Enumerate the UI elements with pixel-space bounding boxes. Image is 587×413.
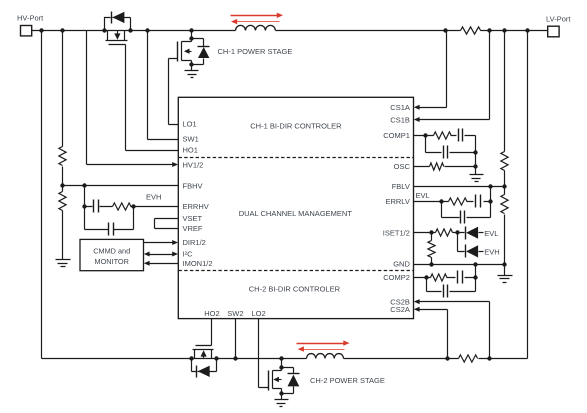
svg-text:IMON1/2: IMON1/2 — [183, 259, 213, 268]
svg-text:CH-1 POWER STAGE: CH-1 POWER STAGE — [218, 47, 293, 56]
resistor bottom-rail CS2 sense — [459, 355, 478, 362]
resistor top-rail LV side — [461, 27, 481, 34]
red arrow left (CH-2 current) — [298, 346, 345, 351]
RC network ERRLV compensation — [414, 187, 493, 224]
wire HO2 to Q3 gate — [211, 319, 213, 346]
svg-text:MONITOR: MONITOR — [95, 257, 129, 266]
svg-text:ERRHV: ERRHV — [183, 202, 209, 211]
pin labels bottom (HO2 SW2 LO2) — [204, 309, 266, 318]
red arrow right (CH-2 current) — [297, 340, 350, 345]
wire HV1/2 sense — [87, 31, 173, 165]
svg-text:EVL: EVL — [416, 191, 430, 200]
port LV-Port — [546, 15, 571, 37]
inductor L1 (CH-1) — [236, 25, 276, 30]
svg-text:FBHV: FBHV — [183, 181, 203, 190]
body diode D1 (Q1) — [105, 12, 131, 31]
junction dots top rail — [39, 28, 529, 32]
diode to EVL clamp — [466, 227, 499, 240]
svg-text:I²C: I²C — [183, 250, 194, 259]
wire FBLV — [414, 186, 505, 188]
red arrow right (CH-1 current) — [231, 13, 284, 18]
wire SW1 sense — [148, 31, 179, 140]
arrow DIR1/2 (CMMD to controller) — [144, 242, 173, 244]
svg-text:HV1/2: HV1/2 — [183, 160, 204, 169]
svg-text:LV-Port: LV-Port — [546, 15, 571, 24]
junction dots bottom rail — [189, 356, 491, 360]
svg-text:ERRLV: ERRLV — [385, 197, 409, 206]
diode to EVH clamp — [458, 233, 500, 258]
transistor Q3 high-side PMOS CH-2 — [193, 346, 214, 359]
wire LO1 to Q2 gate — [169, 59, 179, 125]
pin labels left (LO1..IMON1/2) — [183, 120, 213, 268]
ground (OSC/COMP1) — [475, 167, 477, 175]
svg-text:CS1B: CS1B — [390, 115, 410, 124]
wire FBHV — [63, 185, 179, 187]
svg-text:CH-1 BI-DIR CONTROLER: CH-1 BI-DIR CONTROLER — [250, 121, 342, 130]
svg-text:COMP2: COMP2 — [383, 273, 410, 282]
ground (GND pin) — [504, 265, 506, 276]
wire CS2B — [419, 302, 490, 359]
wire SW2 sense — [235, 319, 237, 359]
svg-text:SW2: SW2 — [227, 309, 243, 318]
ground (Q2 source) — [191, 65, 193, 71]
svg-text:COMP1: COMP1 — [383, 131, 410, 140]
RC network ERRHV compensation — [82, 186, 178, 236]
svg-text:HV-Port: HV-Port — [17, 14, 44, 23]
svg-text:OSC: OSC — [394, 162, 411, 171]
svg-text:CH-2 POWER STAGE: CH-2 POWER STAGE — [310, 376, 385, 385]
svg-text:GND: GND — [393, 260, 410, 269]
svg-text:CS1A: CS1A — [390, 103, 410, 112]
arrow IMON1/2 (controller to CMMD) — [149, 263, 179, 265]
wire CS1B — [419, 31, 490, 120]
resistor divider R4/R5 (FBLV) — [501, 31, 508, 265]
svg-text:VREF: VREF — [183, 224, 203, 233]
svg-text:DIR1/2: DIR1/2 — [183, 238, 206, 247]
RC network COMP1 compensation — [414, 129, 478, 169]
svg-text:LO2: LO2 — [252, 309, 266, 318]
transistor Q4 NMOS CH-2 power stage — [269, 359, 284, 396]
svg-text:DUAL CHANNEL MANAGEMENT: DUAL CHANNEL MANAGEMENT — [239, 209, 353, 218]
block CMMD and MONITOR — [80, 239, 144, 270]
block dual-channel controller U1 — [178, 97, 413, 318]
wire HV left rail to bottom — [41, 31, 43, 359]
resistor OSC — [414, 166, 476, 168]
port HV-Port — [17, 14, 44, 36]
red arrow left (CH-1 current) — [231, 19, 280, 24]
svg-text:EVH: EVH — [484, 248, 499, 257]
svg-text:SW1: SW1 — [183, 134, 199, 143]
wire LV bottom rail — [42, 31, 528, 359]
svg-text:EVH: EVH — [146, 193, 161, 202]
svg-text:FBLV: FBLV — [392, 182, 410, 191]
svg-text:HO1: HO1 — [183, 146, 198, 155]
wire HV/LV top rail — [32, 30, 548, 32]
svg-text:LO1: LO1 — [183, 120, 197, 129]
body diode D2 (Q2) — [192, 39, 210, 65]
svg-text:EVL: EVL — [484, 229, 498, 238]
arrow I2C bidirectional — [149, 254, 173, 256]
wire HO1 to Q1 gate — [126, 45, 179, 151]
ground (Q4 source) — [281, 394, 283, 400]
wire GND net — [414, 264, 505, 266]
dashed divider CH-1 / management — [179, 157, 414, 159]
wire VSET-VREF loop — [155, 219, 179, 229]
wire CS2A — [419, 310, 448, 359]
transistor Q1 high-side PMOS CH-1 — [106, 31, 128, 45]
svg-text:VSET: VSET — [183, 214, 203, 223]
RC network COMP2 compensation — [414, 265, 478, 298]
ground (FBHV divider) — [56, 260, 71, 267]
dashed divider management / CH-2 — [179, 270, 414, 272]
svg-text:CMMD and: CMMD and — [93, 247, 130, 256]
body diode D4 (Q4) — [282, 368, 300, 394]
resistor ISET1/2 — [414, 229, 465, 236]
body diode D3 (Q3) — [192, 359, 217, 378]
pin labels right (CS1A..CS2A) — [383, 103, 411, 314]
svg-text:CH-2 BI-DIR CONTROLER: CH-2 BI-DIR CONTROLER — [249, 284, 341, 293]
resistor divider R2/R3 (FBHV) — [59, 31, 66, 260]
wire LO2 to Q4 gate — [259, 319, 269, 388]
svg-text:ISET1/2: ISET1/2 — [383, 229, 410, 238]
inductor L2 (CH-2) — [307, 354, 344, 359]
transistor Q2 NMOS CH-1 power stage — [178, 31, 194, 67]
svg-text:CS2A: CS2A — [390, 305, 410, 314]
wire CS1A — [419, 31, 447, 108]
svg-text:HO2: HO2 — [204, 309, 219, 318]
resistor ISET pull-down — [431, 233, 433, 241]
